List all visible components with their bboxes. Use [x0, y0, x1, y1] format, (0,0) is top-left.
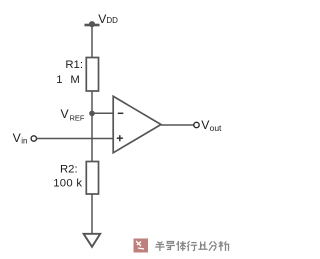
char 行	[187, 241, 197, 251]
char 导	[166, 242, 175, 250]
wire R2 to ground	[91, 194, 93, 236]
label R2 value	[53, 164, 82, 190]
wire R1 to R2	[91, 91, 93, 162]
ground	[84, 234, 101, 247]
svg-text:1: 1	[56, 74, 62, 86]
label Vout	[201, 118, 222, 133]
svg-text:REF: REF	[70, 113, 85, 122]
svg-text:100 k: 100 k	[53, 177, 82, 189]
wire VDD to R1	[91, 25, 93, 58]
label VREF	[61, 107, 85, 123]
char 体	[177, 241, 187, 251]
svg-text:M: M	[70, 74, 79, 86]
terminal Vout	[194, 122, 199, 127]
wire op-amp output	[161, 124, 194, 126]
svg-text:V: V	[61, 107, 70, 121]
char 半	[155, 242, 164, 252]
svg-text:in: in	[21, 137, 27, 146]
node VREF	[89, 111, 95, 117]
op-amp U1	[113, 96, 161, 153]
svg-text:out: out	[210, 123, 222, 133]
char 分	[209, 241, 217, 251]
resistor R2	[86, 162, 98, 195]
char 析	[219, 241, 230, 251]
svg-text:DD: DD	[106, 16, 118, 25]
wire Vin to op-amp non-inverting input	[37, 138, 114, 140]
wire VREF to op-amp inverting input	[92, 112, 113, 114]
svg-text:R2:: R2:	[60, 164, 78, 176]
svg-text:R1:: R1:	[65, 59, 83, 71]
power rail VDD	[85, 21, 100, 27]
label R1 value	[56, 59, 83, 86]
label Vin	[13, 131, 28, 146]
terminal Vin	[31, 136, 36, 141]
resistor R1	[86, 58, 98, 92]
label VDD	[98, 12, 118, 26]
char 业	[198, 242, 207, 250]
watermark logo	[134, 239, 149, 253]
watermark text 半导体行业分析	[155, 241, 229, 251]
